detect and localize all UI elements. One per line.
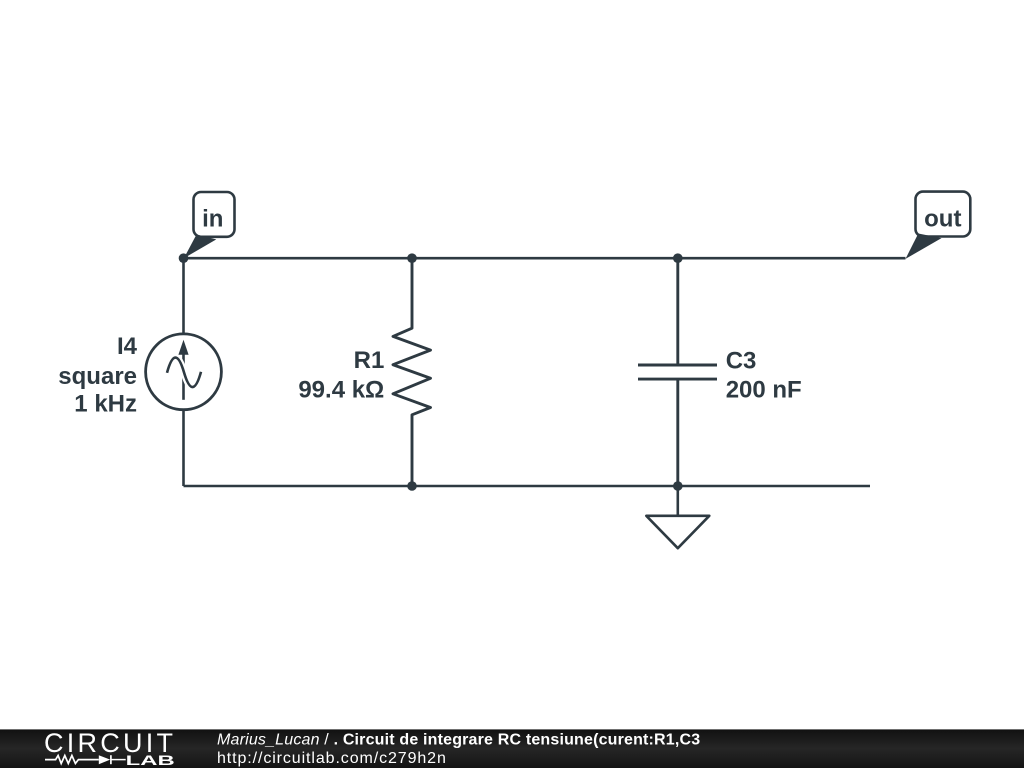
resistor R1 xyxy=(393,258,431,486)
label R1 99.4 kOhm xyxy=(298,347,384,404)
net flag "in" xyxy=(184,192,235,258)
node junction dot: in node xyxy=(179,253,189,263)
svg-text:in: in xyxy=(202,205,223,232)
current source I4 xyxy=(146,334,222,410)
svg-text:99.4 kΩ: 99.4 kΩ xyxy=(298,376,384,403)
svg-text:I4: I4 xyxy=(117,333,138,360)
svg-text:R1: R1 xyxy=(354,347,385,374)
svg-text:C3: C3 xyxy=(726,347,757,374)
capacitor C3 xyxy=(638,258,717,486)
svg-text:out: out xyxy=(924,206,961,233)
ground xyxy=(646,486,709,548)
wire: left rail upper (in node to I4 top) xyxy=(182,258,185,334)
CircuitLab logo: resistor-diode glyph xyxy=(45,755,126,764)
node junction dot: top of C3 xyxy=(673,253,683,263)
net flag "out" xyxy=(906,192,971,259)
label I4 square 1 kHz xyxy=(58,333,137,418)
svg-text:1 kHz: 1 kHz xyxy=(74,391,137,418)
wire: left rail lower (I4 bottom to ground net) xyxy=(182,410,185,486)
node junction dot: top of R1 xyxy=(407,253,417,263)
footer bar xyxy=(0,729,1024,768)
svg-text:http://circuitlab.com/c279h2n: http://circuitlab.com/c279h2n xyxy=(217,750,447,767)
svg-text:200 nF: 200 nF xyxy=(726,377,802,404)
wire: bottom ground net xyxy=(184,485,871,488)
label C3 200 nF xyxy=(726,347,802,403)
svg-text:square: square xyxy=(58,363,137,390)
svg-text:LAB: LAB xyxy=(126,753,175,768)
svg-text:Marius_Lucan / . Circuit de in: Marius_Lucan / . Circuit de integrare RC… xyxy=(217,732,700,749)
wire: top net (in/out) xyxy=(184,257,906,260)
node junction dot: bottom of C3 / ground xyxy=(673,481,683,491)
node junction dot: bottom of R1 xyxy=(407,481,417,491)
